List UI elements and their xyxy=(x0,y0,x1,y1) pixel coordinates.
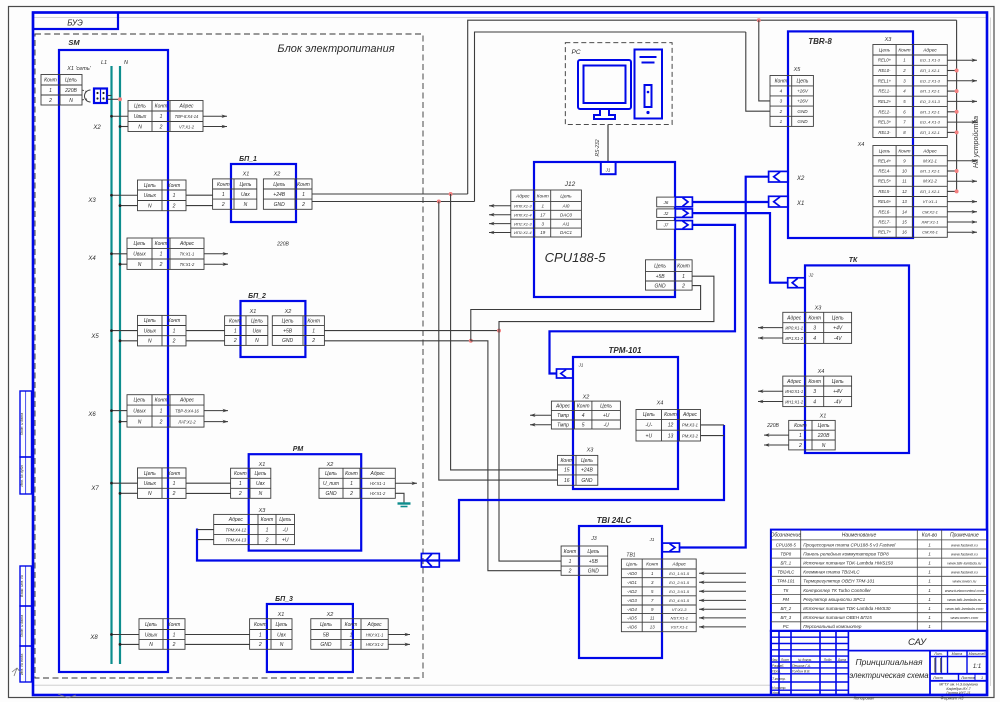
connector cell CPU J6 xyxy=(657,197,676,207)
svg-text:БП_1 Х2-1: БП_1 Х2-1 xyxy=(920,68,940,73)
arrow X6 out1 xyxy=(204,410,228,412)
svg-text:1: 1 xyxy=(350,481,353,487)
svg-text:Дата: Дата xyxy=(837,658,847,662)
svg-text:ТВI 24LC: ТВI 24LC xyxy=(597,516,632,525)
connector chevron CPU J2 xyxy=(675,209,692,218)
tap dot N X2 xyxy=(119,125,122,128)
connector chevron TBR X2 xyxy=(769,171,789,182)
connector chevron TBR X1 xyxy=(769,196,789,207)
wire X3 to BP1 pin2 xyxy=(186,205,213,207)
wire CPU J7 to TRM J1 xyxy=(550,225,736,374)
svg-text:Конт: Конт xyxy=(677,263,690,269)
arrow TBI TB1 row2 xyxy=(699,581,746,583)
svg-text:2: 2 xyxy=(779,109,783,114)
svg-text:1: 1 xyxy=(928,588,931,593)
svg-text:220В: 220В xyxy=(817,433,830,439)
svg-text:2: 2 xyxy=(238,491,242,497)
PC dashed boundary xyxy=(565,43,672,125)
svg-text:N: N xyxy=(149,642,153,648)
svg-text:Uвх: Uвх xyxy=(277,632,286,638)
junction TBR minus row y171 xyxy=(955,169,959,173)
svg-text:НУ:Х1-1: НУ:Х1-1 xyxy=(370,481,385,486)
svg-text:J3: J3 xyxy=(590,536,597,542)
svg-text:J2: J2 xyxy=(663,211,669,216)
svg-text:Х2: Х2 xyxy=(796,176,805,182)
svg-text:Х1: Х1 xyxy=(796,201,804,207)
svg-text:Утв.: Утв. xyxy=(772,691,780,695)
svg-text:J7: J7 xyxy=(663,223,669,228)
svg-text:12: 12 xyxy=(668,423,674,429)
svg-text:Конт: Конт xyxy=(168,471,181,477)
svg-text:J6: J6 xyxy=(663,200,669,205)
arrow TBR X4 output y181.2 xyxy=(947,180,977,182)
svg-text:1: 1 xyxy=(312,328,315,334)
svg-text:МГТУ им. Н.Э.Баумана: МГТУ им. Н.Э.Баумана xyxy=(939,682,977,686)
svg-text:Цепь: Цепь xyxy=(273,182,285,188)
svg-text:Конт: Конт xyxy=(577,404,590,410)
svg-text:1: 1 xyxy=(780,119,783,124)
wire N to X8 pin2 xyxy=(120,643,139,645)
svg-text:2: 2 xyxy=(301,202,305,208)
svg-text:Х1: Х1 xyxy=(258,462,266,468)
svg-text:Цепь: Цепь xyxy=(144,318,156,324)
svg-text:-AD2: -AD2 xyxy=(627,589,638,594)
svg-text:REL2+: REL2+ xyxy=(878,99,892,104)
svg-text:+5В: +5В xyxy=(283,328,293,334)
svg-text:Конт: Конт xyxy=(345,622,358,628)
svg-text:1: 1 xyxy=(173,632,176,638)
svg-text:БУЭ: БУЭ xyxy=(67,19,83,28)
svg-text:Адрес: Адрес xyxy=(786,315,802,321)
svg-text:1: 1 xyxy=(49,88,52,94)
svg-text:Uвых: Uвых xyxy=(145,632,158,638)
svg-text:ЕО_1 Х1-3: ЕО_1 Х1-3 xyxy=(920,58,941,63)
arrow TK X3 pin3 xyxy=(758,327,783,329)
svg-text:Цепь: Цепь xyxy=(320,622,332,628)
svg-text:3: 3 xyxy=(780,99,783,104)
svg-text:N: N xyxy=(148,339,152,345)
svg-text:ТК:Х1-2: ТК:Х1-2 xyxy=(180,262,195,267)
connector chevron PM-TRM link at boundary xyxy=(421,554,439,568)
svg-text:REL5-: REL5- xyxy=(878,189,891,194)
svg-text:15: 15 xyxy=(902,220,907,225)
junction GND5 xyxy=(469,339,473,343)
svg-text:Цепь: Цепь xyxy=(643,412,655,418)
svg-text:Конт: Конт xyxy=(564,549,577,555)
svg-text:Х8: Х8 xyxy=(89,635,98,641)
svg-text:REL7-: REL7- xyxy=(878,220,891,225)
svg-text:+5В: +5В xyxy=(656,274,666,280)
svg-text:М:Х1-2: М:Х1-2 xyxy=(923,179,937,184)
svg-text:VТ:Х1-2: VТ:Х1-2 xyxy=(179,124,195,129)
svg-text:REL1+: REL1+ xyxy=(878,78,892,83)
arrow TK X4 pin4 xyxy=(758,401,783,403)
margin stamp Инв. № подл. xyxy=(20,646,32,682)
svg-text:САУ: САУ xyxy=(908,637,927,648)
svg-text:Конт: Конт xyxy=(794,423,807,429)
svg-text:AI1: AI1 xyxy=(562,221,570,226)
wire N to X6 pin2 xyxy=(120,421,127,423)
svg-text:Конт: Конт xyxy=(217,182,230,188)
wire L1 to X7 pin1 xyxy=(112,482,138,484)
margin stamp Подп. и дата xyxy=(20,391,32,457)
wire GND down to TRM X3-16 xyxy=(439,202,558,481)
junction TBR minus row y70.5 xyxy=(955,69,959,73)
wire GND up to CPU xyxy=(471,286,701,341)
svg-text:Лист: Лист xyxy=(932,676,943,680)
svg-text:СМ:Х2-1: СМ:Х2-1 xyxy=(922,209,938,214)
svg-text:Цепь: Цепь xyxy=(144,183,156,189)
wire GND BP1 X2-2 horizontal xyxy=(312,201,475,203)
svg-text:Панель релейных коммутаторов Т: Панель релейных коммутаторов ТВР8 xyxy=(803,550,889,556)
svg-text:ЕО_2:Х1-5: ЕО_2:Х1-5 xyxy=(669,580,690,585)
svg-text:РС: РС xyxy=(571,49,580,56)
svg-text:2: 2 xyxy=(159,262,163,268)
block PM power regulator xyxy=(249,454,362,550)
svg-text:НУ:Х1-2: НУ:Х1-2 xyxy=(370,491,386,496)
arrow TK X4 pin3 xyxy=(758,390,783,392)
svg-text:220В: 220В xyxy=(766,423,779,429)
svg-text:Х5: Х5 xyxy=(793,67,802,73)
title block xyxy=(771,631,987,695)
svg-text:Цепь: Цепь xyxy=(276,622,288,628)
svg-text:GND: GND xyxy=(325,491,337,497)
svg-text:Конт: Конт xyxy=(808,315,821,321)
connector J1 on CPU xyxy=(601,162,616,174)
svg-text:Контроллер ТК Turbo Controller: Контроллер ТК Turbo Controller xyxy=(803,588,871,593)
svg-text:+U: +U xyxy=(646,433,653,439)
svg-text:ТК: ТК xyxy=(783,588,789,593)
svg-text:Х2: Х2 xyxy=(582,395,590,401)
svg-text:НКУ:Х1-1: НКУ:Х1-1 xyxy=(366,632,384,637)
tap dot N X5 xyxy=(119,339,122,342)
svg-text:Х4: Х4 xyxy=(857,142,865,148)
tap dot N X8 xyxy=(119,643,122,646)
svg-text:Адрес: Адрес xyxy=(786,379,802,385)
svg-text:Цепь: Цепь xyxy=(797,79,809,85)
svg-text:220В: 220В xyxy=(276,242,289,248)
connector table CPU power xyxy=(646,260,693,290)
svg-text:Адрес: Адрес xyxy=(515,193,530,199)
tap dot L1 X4 xyxy=(110,252,113,255)
svg-text:Источник питания ОВЕН БП15: Источник питания ОВЕН БП15 xyxy=(803,615,872,620)
wire TBR minus row stub y191.4 xyxy=(947,190,956,192)
svg-text:Х5: Х5 xyxy=(90,334,99,340)
svg-text:Х1 'сеть': Х1 'сеть' xyxy=(66,66,92,72)
svg-text:ЕО_4:Х1-5: ЕО_4:Х1-5 xyxy=(669,598,690,603)
svg-text:БП_1: БП_1 xyxy=(239,156,257,163)
svg-text:www.owen.com: www.owen.com xyxy=(951,615,979,620)
wire TBR minus row stub y171 xyxy=(947,170,956,172)
svg-text:1: 1 xyxy=(981,676,983,680)
svg-text:Конт: Конт xyxy=(537,193,549,199)
svg-text:Т.контр.: Т.контр. xyxy=(772,677,786,681)
svg-text:1: 1 xyxy=(266,527,269,533)
svg-text:Цепь: Цепь xyxy=(145,622,157,628)
tap dot L1 X5 xyxy=(110,329,113,332)
svg-text:N: N xyxy=(280,642,284,648)
svg-text:Цепь: Цепь xyxy=(65,78,77,84)
connector cell CPU J7 xyxy=(657,221,676,230)
wire TBR minus row stub y70.5 xyxy=(947,70,956,72)
svg-text:NSТ:Х1-1: NSТ:Х1-1 xyxy=(670,616,688,621)
svg-text:ЕО_4 Х1-3: ЕО_4 Х1-3 xyxy=(920,120,941,125)
lit cell marks xyxy=(934,658,936,673)
svg-text:Х1: Х1 xyxy=(249,309,257,315)
svg-text:Х3: Х3 xyxy=(87,198,96,204)
svg-text:VТ:Х1-3: VТ:Х1-3 xyxy=(672,607,687,612)
svg-text:Лит.: Лит. xyxy=(933,652,942,656)
arrow TBI TB1 row4 xyxy=(699,599,746,601)
svg-text:1: 1 xyxy=(569,559,572,565)
connector table TRM X2 xyxy=(551,401,620,429)
svg-text:Изм.: Изм. xyxy=(771,658,778,662)
wire CPU J2 to TK J2 xyxy=(692,213,787,283)
connector table TK X4 xyxy=(783,376,852,407)
tap dot N X6 xyxy=(119,420,122,423)
svg-text:www.tdk-lambda.ru: www.tdk-lambda.ru xyxy=(947,561,982,566)
svg-text:Адрес: Адрес xyxy=(922,48,937,54)
svg-text:РМ: РМ xyxy=(293,446,304,453)
wire L1 to X8 pin1 xyxy=(112,634,140,636)
arrow TBR X3 output y60.2 xyxy=(947,59,977,61)
arrow X4 out2 xyxy=(204,263,228,265)
svg-text:10: 10 xyxy=(902,169,907,174)
arrow TBI TB1 row3 xyxy=(699,590,746,592)
svg-text:1: 1 xyxy=(173,193,176,199)
svg-text:Конт: Конт xyxy=(155,104,168,110)
svg-text:Конт: Конт xyxy=(297,182,310,188)
arrow TBI TB1 row5 xyxy=(699,608,746,610)
connector chevron CPU J6 xyxy=(675,197,692,207)
wire TBR minus row stub y132.4 xyxy=(947,131,956,133)
svg-text:Цепь: Цепь xyxy=(879,148,891,154)
svg-text:-AD0: -AD0 xyxy=(627,571,638,576)
svg-text:16: 16 xyxy=(564,478,570,484)
svg-text:НКУ:Х1-2: НКУ:Х1-2 xyxy=(366,642,384,647)
svg-text:Цепь: Цепь xyxy=(818,423,830,429)
block TBR-8 relay board xyxy=(788,31,913,238)
svg-text:J1: J1 xyxy=(578,363,584,368)
svg-text:ИН1:Х1-2: ИН1:Х1-2 xyxy=(785,399,804,404)
svg-text:Конт: Конт xyxy=(808,379,821,385)
svg-text:1: 1 xyxy=(682,274,685,280)
svg-text:Конт: Конт xyxy=(646,562,658,568)
svg-text:VSТ:Х1-1: VSТ:Х1-1 xyxy=(671,625,688,630)
svg-text:REL4+: REL4+ xyxy=(878,158,892,163)
arrow TBR X3 output y101.4 xyxy=(947,100,977,102)
arrow TK X1 pin2 xyxy=(764,444,789,446)
svg-text:1: 1 xyxy=(928,551,931,556)
svg-text:Конт: Конт xyxy=(261,517,274,523)
svg-text:ТВР-8:Х4-16: ТВР-8:Х4-16 xyxy=(175,408,199,413)
wire N to X7 pin2 xyxy=(120,492,138,494)
svg-text:Х4: Х4 xyxy=(656,401,664,407)
svg-text:1:1: 1:1 xyxy=(973,664,981,670)
svg-text:2: 2 xyxy=(172,339,176,345)
svg-text:N: N xyxy=(255,338,259,344)
svg-text:Адрес: Адрес xyxy=(179,241,195,247)
block BP_3 power supply xyxy=(267,604,353,672)
svg-text:Цепь: Цепь xyxy=(879,48,891,54)
wire +24V down to TRM X3-15 xyxy=(451,194,558,470)
svg-text:БП_1 Х2-1: БП_1 Х2-1 xyxy=(920,130,940,135)
svg-text:N: N xyxy=(138,262,142,268)
svg-text:Цепь: Цепь xyxy=(134,104,146,110)
svg-text:DAC1: DAC1 xyxy=(560,230,573,235)
svg-text:Х2: Х2 xyxy=(92,125,101,131)
svg-text:1: 1 xyxy=(160,114,163,120)
svg-text:электрическая схема: электрическая схема xyxy=(849,671,929,680)
svg-text:Подп. и дата: Подп. и дата xyxy=(20,413,24,436)
svg-text:ЛАТ:Х1-2: ЛАТ:Х1-2 xyxy=(177,419,196,424)
svg-text:VТ:Х1-1: VТ:Х1-1 xyxy=(923,199,938,204)
svg-text:Х1: Х1 xyxy=(819,414,827,420)
svg-text:2: 2 xyxy=(265,537,269,543)
svg-text:GND: GND xyxy=(655,283,667,289)
wire GND down to TBR X5-2 xyxy=(746,32,770,111)
arrow TBR X4 output y201.6 xyxy=(947,201,977,203)
svg-text:ЛАТ:Х1-1: ЛАТ:Х1-1 xyxy=(921,220,939,225)
svg-text:www.fastwel.ru: www.fastwel.ru xyxy=(951,570,978,575)
svg-text:Uвых: Uвых xyxy=(144,193,157,199)
svg-text:Цепь: Цепь xyxy=(134,398,146,404)
svg-text:Адрес: Адрес xyxy=(555,404,571,410)
stub TRM X4-13 xyxy=(701,435,725,437)
svg-text:REL5+: REL5+ xyxy=(878,179,892,184)
svg-text:Цепь: Цепь xyxy=(282,319,294,325)
wire N to X5 pin2 xyxy=(120,340,138,342)
svg-text:Процессорная плата CPU188-5 v3: Процессорная плата CPU188-5 v3 Fastwel xyxy=(803,542,896,547)
svg-text:TBR-8: TBR-8 xyxy=(808,37,832,46)
svg-text:1: 1 xyxy=(173,481,176,487)
junction TBR minus row y91.1 xyxy=(955,89,959,93)
svg-text:Адрес: Адрес xyxy=(178,104,194,110)
svg-text:-U: -U xyxy=(603,422,609,428)
tap dot L1 X6 xyxy=(110,409,113,412)
svg-text:1: 1 xyxy=(928,597,931,602)
svg-text:Кол-во: Кол-во xyxy=(922,533,938,539)
wire +24V up and across top xyxy=(468,20,957,194)
svg-text:N: N xyxy=(138,419,142,425)
wire N to X2 pin2 xyxy=(120,126,128,128)
svg-text:1: 1 xyxy=(928,579,931,584)
mains plug connector symbol xyxy=(82,90,87,92)
arrow CPU J12 pin3 xyxy=(489,223,511,225)
svg-text:2: 2 xyxy=(172,642,176,648)
svg-text:+4V: +4V xyxy=(833,389,843,395)
connector table TBR X3 xyxy=(873,45,947,138)
svg-text:ТВI24LC: ТВI24LC xyxy=(777,570,795,575)
svg-text:Масса: Масса xyxy=(952,652,963,656)
arrow TBI TB1 row1 xyxy=(699,572,746,574)
svg-text:U_пит: U_пит xyxy=(323,481,339,487)
svg-text:5В: 5В xyxy=(323,632,330,638)
svg-text:Адрес: Адрес xyxy=(671,562,686,568)
svg-text:Х4: Х4 xyxy=(87,256,96,262)
wire GND up and across top xyxy=(475,32,746,202)
junction +5V xyxy=(497,329,501,333)
svg-text:2: 2 xyxy=(311,338,315,344)
wire +5V up to CPU xyxy=(499,276,714,330)
svg-text:РМ:Х3-1: РМ:Х3-1 xyxy=(682,423,698,428)
svg-text:1: 1 xyxy=(259,632,262,638)
arrow TRM X2 pin4 xyxy=(530,414,551,416)
svg-text:-AD5: -AD5 xyxy=(627,616,638,621)
svg-text:Конт: Конт xyxy=(155,241,168,247)
BUE label box xyxy=(33,13,118,30)
svg-text:REL6+: REL6+ xyxy=(878,199,892,204)
svg-text:Конт: Конт xyxy=(307,319,320,325)
svg-text:Х2: Х2 xyxy=(326,612,334,618)
connector table SM X1 xyxy=(41,75,82,106)
arrow PM X2 out1 xyxy=(395,482,417,484)
svg-text:N: N xyxy=(124,60,128,66)
svg-text:Конт: Конт xyxy=(44,78,57,84)
svg-text:1: 1 xyxy=(350,632,353,638)
svg-text:Блок электропитания: Блок электропитания xyxy=(277,43,394,55)
wire +5V down to TBI J3-1 xyxy=(499,331,561,561)
connector chevron TK J2 xyxy=(788,278,805,288)
svg-text:РМ: РМ xyxy=(783,597,790,602)
connector table TK X1 xyxy=(789,420,836,450)
svg-text:ТК: ТК xyxy=(849,257,858,264)
svg-text:ИР0:Х1-1: ИР0:Х1-1 xyxy=(785,325,803,330)
svg-text:Подп.: Подп. xyxy=(824,658,833,662)
junction TBR minus row y191.4 xyxy=(955,189,959,193)
junction GND drop xyxy=(437,200,441,204)
svg-text:N: N xyxy=(138,124,142,130)
svg-text:16: 16 xyxy=(902,230,907,235)
svg-text:ЕО_1:Х1-5: ЕО_1:Х1-5 xyxy=(669,571,690,576)
svg-text:REL4-: REL4- xyxy=(878,169,891,174)
svg-text:Х4: Х4 xyxy=(817,369,825,375)
svg-text:Х3: Х3 xyxy=(586,448,595,454)
svg-text:2: 2 xyxy=(258,642,262,648)
svg-text:Обозначение: Обозначение xyxy=(770,533,801,539)
arrow TK X1 pin1 xyxy=(764,434,789,436)
connector table SM X2 xyxy=(128,101,203,132)
svg-text:GND: GND xyxy=(282,338,294,344)
arrow TBR X3 output y80.8 xyxy=(947,80,977,82)
svg-text:Регулятор мощности SPC1: Регулятор мощности SPC1 xyxy=(803,597,865,602)
svg-text:БП_1 Х2-1: БП_1 Х2-1 xyxy=(920,89,940,94)
svg-text:REL1-: REL1- xyxy=(878,89,891,94)
svg-text:Пешков Г.А.: Пешков Г.А. xyxy=(792,664,811,668)
svg-text:2: 2 xyxy=(902,68,906,73)
svg-text:N: N xyxy=(148,491,152,497)
svg-text:БП_3: БП_3 xyxy=(780,615,791,620)
junction TBR minus row y111.8 xyxy=(955,110,959,114)
connector table TRM X3 xyxy=(558,455,598,485)
svg-text:Х2: Х2 xyxy=(284,309,292,315)
svg-text:ТРМ-101: ТРМ-101 xyxy=(609,346,642,355)
svg-text:Конт: Конт xyxy=(898,48,910,54)
tap dot L1 X8 xyxy=(110,633,113,636)
svg-text:БП_1: БП_1 xyxy=(780,561,791,566)
svg-text:Подп. и дата: Подп. и дата xyxy=(20,615,24,638)
wire PM X2 gnd xyxy=(395,493,404,503)
tap dot N X3 xyxy=(119,204,122,207)
svg-text:Конт: Конт xyxy=(155,398,168,404)
svg-text:1: 1 xyxy=(160,252,163,258)
block BP_1 power supply xyxy=(231,164,296,222)
block TBI 24LC terminal board xyxy=(579,526,662,658)
connector table PM X2 xyxy=(319,468,395,498)
svg-text:Источник питания TDK-Lambda HW: Источник питания TDK-Lambda HWS150 xyxy=(803,561,893,566)
svg-text:ИР1:Х1-2: ИР1:Х1-2 xyxy=(785,336,803,341)
svg-text:Цепь: Цепь xyxy=(832,315,844,321)
